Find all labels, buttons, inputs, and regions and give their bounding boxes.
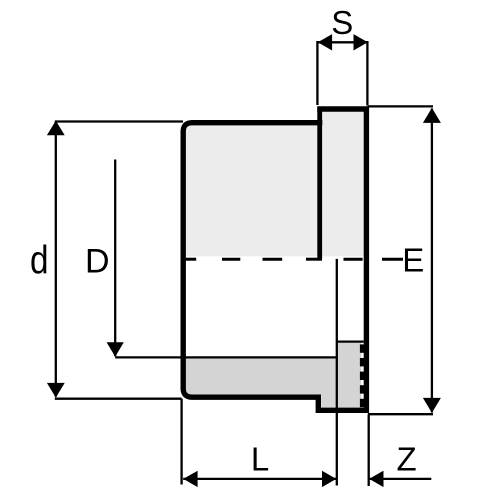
flange collar separator line (upper half) (317, 107, 322, 259)
d top extension line (55, 120, 183, 122)
E dimension line (431, 109, 433, 413)
Z left arrowhead (369, 471, 383, 487)
d bottom extension line (55, 398, 182, 400)
E bottom arrowhead (423, 398, 441, 413)
E bottom extension line (368, 413, 433, 415)
Z left extension line (368, 415, 370, 486)
E top extension line (368, 105, 433, 107)
d bottom arrowhead (47, 383, 65, 398)
serration teeth on flange face (360, 344, 365, 352)
body outline (thick) (183, 109, 366, 410)
L left extension line (180, 399, 182, 485)
Z dimension line (369, 478, 431, 480)
flange strip top line (lower half) (336, 340, 364, 342)
L dimension (182, 399, 337, 485)
socket cavity fill (lower half, gray) (186, 359, 338, 408)
L left arrowhead (183, 471, 197, 487)
flange collar interior fill (upper half, light gray) (322, 111, 364, 256)
D dimension line (114, 160, 116, 357)
S dimension (317, 41, 367, 106)
S right arrowhead (354, 34, 368, 50)
body interior fill (upper half, light gray) (186, 125, 318, 256)
E dimension (368, 106, 433, 414)
D dimension (114, 160, 116, 357)
S left extension line (316, 41, 318, 105)
svg-text:Z: Z (397, 441, 417, 478)
socket top line (115, 356, 338, 358)
Z dimension (369, 415, 432, 486)
L right arrowhead (322, 471, 336, 487)
L dimension line (183, 478, 336, 480)
S dimension line (318, 41, 368, 43)
svg-text:D: D (85, 242, 110, 280)
D bottom arrowhead (107, 342, 124, 357)
d dimension line (55, 121, 57, 396)
flange strip fill (lower half, gray, serrated face) (336, 343, 361, 408)
S left arrowhead (318, 34, 332, 50)
d top arrowhead (47, 121, 65, 136)
svg-text:S: S (331, 4, 353, 41)
stub/flange boundary line + L right extension line (336, 259, 338, 486)
svg-text:d: d (30, 238, 49, 282)
svg-text:L: L (251, 441, 269, 478)
E top arrowhead (423, 108, 441, 123)
centerline (dashed) (185, 258, 403, 261)
S right extension line (366, 41, 368, 106)
svg-text:E: E (402, 242, 424, 279)
d dimension (55, 121, 183, 398)
